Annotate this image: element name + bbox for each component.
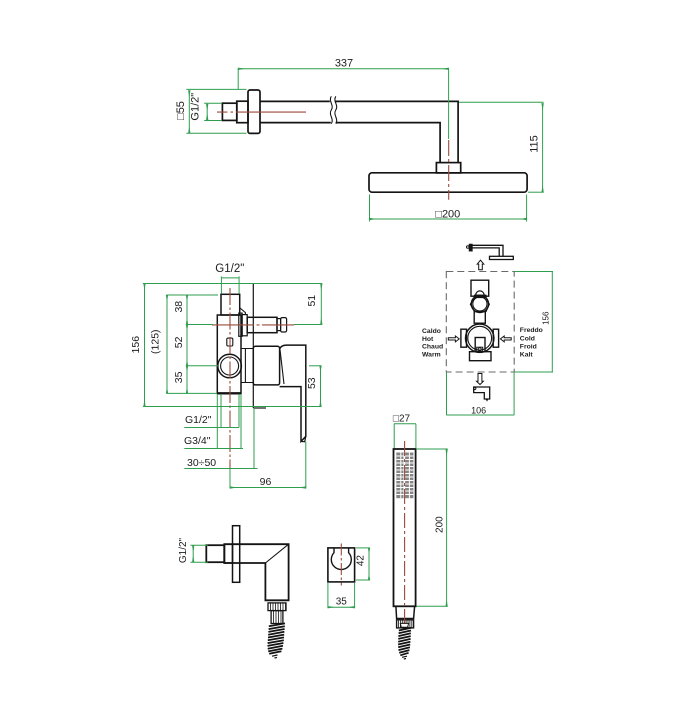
svg-text:35: 35: [336, 597, 348, 608]
svg-text:Kalt: Kalt: [520, 352, 534, 359]
svg-text:Froid: Froid: [520, 343, 537, 350]
svg-text:200: 200: [434, 516, 445, 533]
svg-text:30÷50: 30÷50: [187, 457, 216, 469]
svg-text:(125): (125): [150, 329, 162, 354]
svg-text:Freddo: Freddo: [520, 327, 543, 334]
svg-text:Cold: Cold: [520, 335, 535, 342]
svg-text:106: 106: [471, 406, 486, 416]
svg-text:337: 337: [335, 58, 353, 70]
svg-text:35: 35: [173, 371, 185, 383]
svg-text:Chaud: Chaud: [422, 344, 443, 351]
svg-text:□27: □27: [393, 414, 411, 425]
svg-text:52: 52: [173, 336, 185, 348]
svg-text:Hot: Hot: [422, 336, 434, 343]
svg-text:□55: □55: [175, 101, 187, 120]
svg-text:Warm: Warm: [422, 351, 441, 358]
svg-text:G1/2": G1/2": [178, 537, 189, 563]
svg-text:42: 42: [356, 555, 367, 567]
svg-text:Caldo: Caldo: [422, 328, 441, 335]
svg-text:G3/4": G3/4": [184, 435, 211, 447]
svg-text:G1/2": G1/2": [215, 263, 244, 275]
svg-text:96: 96: [260, 476, 272, 488]
svg-text:156: 156: [542, 311, 551, 325]
svg-text:51: 51: [306, 295, 318, 307]
svg-text:115: 115: [529, 135, 541, 153]
svg-text:53: 53: [306, 377, 318, 389]
svg-text:□200: □200: [435, 208, 460, 220]
svg-text:G1/2": G1/2": [185, 414, 212, 426]
svg-text:156: 156: [130, 336, 142, 354]
svg-text:G1/2": G1/2": [190, 93, 202, 121]
svg-text:38: 38: [173, 301, 185, 313]
